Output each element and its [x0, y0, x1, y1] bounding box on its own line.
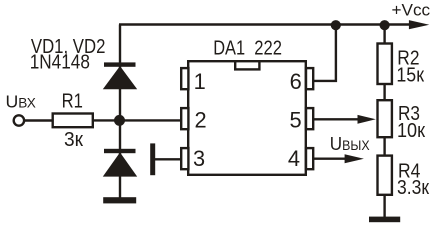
- wire R1 to pin 2: [94, 119, 183, 121]
- resistor R1: [53, 114, 93, 128]
- diode VD1: [103, 62, 137, 89]
- terminal Uvx input circle: [14, 115, 24, 125]
- resistor R4: [378, 156, 392, 195]
- wire input to R1: [24, 119, 52, 121]
- svg-text:DA1: DA1: [213, 38, 245, 60]
- svg-text:6: 6: [290, 69, 302, 94]
- ground (left): [103, 197, 136, 203]
- wire rail to R2: [383, 25, 385, 45]
- svg-text:15к: 15к: [396, 65, 424, 87]
- node rail / pin 6 branch: [331, 20, 341, 30]
- pin 5: [289, 107, 313, 132]
- node junction R1 / diodes / pin 2: [114, 115, 125, 126]
- ground (right): [369, 217, 400, 223]
- output arrow Uvyh from pin 4: [314, 154, 364, 163]
- svg-text:10к: 10к: [397, 120, 425, 142]
- svg-text:1: 1: [194, 69, 206, 94]
- potentiometer R3: [378, 100, 392, 137]
- svg-text:R1: R1: [62, 91, 83, 113]
- node rail / R2 branch: [380, 20, 390, 30]
- pin 2: [181, 107, 206, 132]
- pin 6: [290, 68, 314, 94]
- IC DA1 body: [188, 61, 306, 175]
- svg-text:3: 3: [193, 146, 205, 171]
- svg-text:2: 2: [195, 107, 207, 132]
- svg-text:222: 222: [254, 38, 282, 60]
- svg-text:4: 4: [288, 146, 300, 171]
- pin 4: [288, 146, 313, 171]
- wire diode branch vertical: [119, 25, 121, 199]
- IC orientation notch: [235, 61, 259, 69]
- svg-text:3.3к: 3.3к: [397, 177, 429, 199]
- svg-text:+Vcc: +Vcc: [392, 1, 431, 19]
- svg-text:UВЫХ: UВЫХ: [330, 133, 370, 154]
- pin 3 common bar terminal: [150, 143, 155, 175]
- pin 1: [181, 68, 206, 94]
- wire R4 to ground: [383, 194, 385, 218]
- resistor R2: [378, 44, 392, 85]
- wire R3 to R4: [383, 137, 385, 157]
- svg-text:3к: 3к: [64, 129, 83, 151]
- svg-text:1N4148: 1N4148: [30, 52, 90, 74]
- wire R2 to R3: [383, 84, 385, 101]
- pin 3: [181, 146, 205, 171]
- +Vcc arrow terminal: [409, 20, 429, 29]
- wire pin 3 to bar: [155, 158, 182, 160]
- diode VD2: [103, 149, 137, 177]
- svg-text:5: 5: [289, 107, 301, 132]
- wire pin 6 to Vcc rail: [314, 25, 336, 81]
- wire pin 5 to R3 wiper arrow: [314, 115, 376, 124]
- wire +Vcc rail: [119, 23, 414, 25]
- svg-text:UВХ: UВХ: [6, 91, 36, 111]
